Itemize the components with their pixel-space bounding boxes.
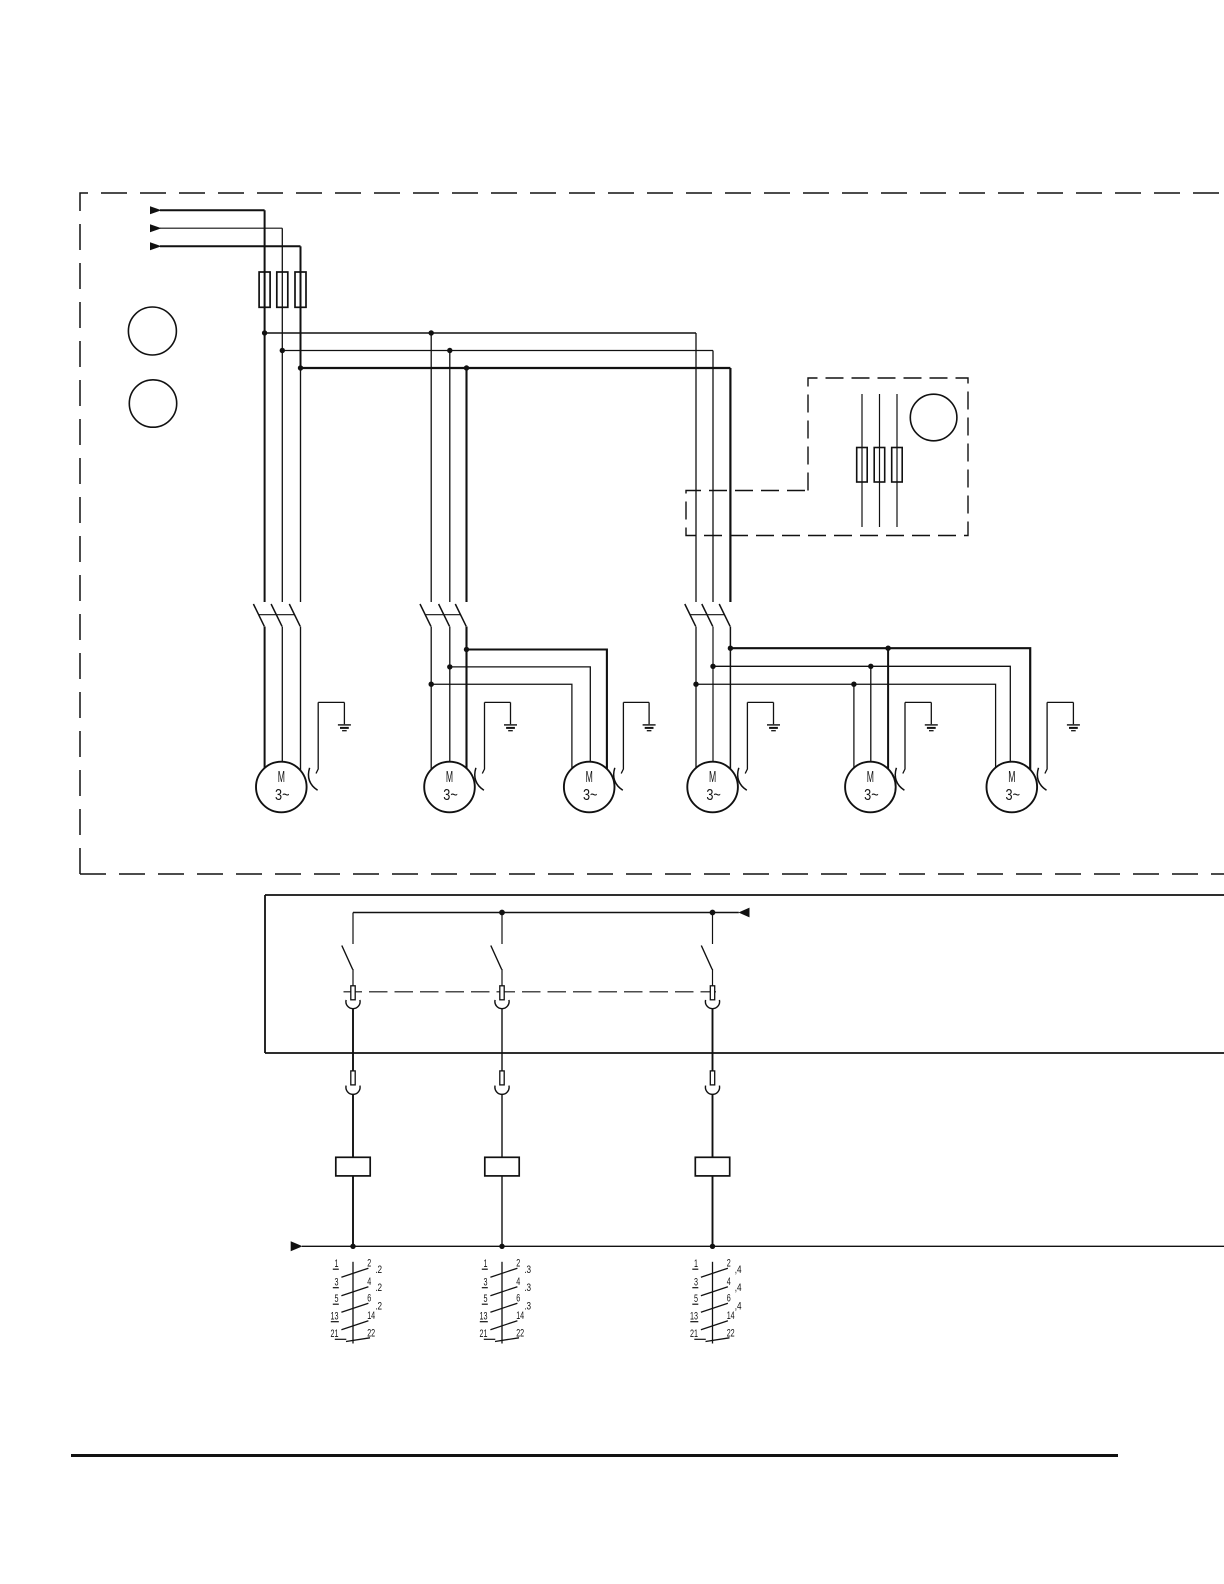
svg-text:M: M xyxy=(867,769,874,786)
motor M6 xyxy=(987,762,1038,813)
svg-text:.3: .3 xyxy=(524,1264,531,1276)
svg-text:4: 4 xyxy=(367,1276,371,1288)
junction L2-K1 xyxy=(280,348,285,353)
svg-text:2: 2 xyxy=(727,1258,731,1270)
ground motor 5 xyxy=(905,702,938,730)
svg-text:6: 6 xyxy=(516,1293,520,1305)
contact table K3 xyxy=(690,1258,742,1344)
wire K2 drop L3 xyxy=(465,368,467,602)
junction bus K3 xyxy=(710,1244,715,1249)
svg-text:3~: 3~ xyxy=(864,787,879,804)
wire L2 drop xyxy=(281,228,283,602)
svg-text:.2: .2 xyxy=(375,1282,382,1294)
svg-text:.3: .3 xyxy=(524,1282,531,1294)
connector X1a xyxy=(346,986,360,1009)
PE wire motor 6 xyxy=(1045,702,1047,773)
junction mid M5 xyxy=(868,664,873,669)
wire branch M3 top xyxy=(467,650,607,776)
fuse F3 xyxy=(295,272,306,307)
wire coil K1 to bus xyxy=(352,1176,354,1246)
ground motor 3 xyxy=(623,702,655,730)
connector X3a xyxy=(705,986,719,1009)
indicator circle P1 xyxy=(128,307,176,355)
motor M5 xyxy=(845,762,896,813)
svg-text:1: 1 xyxy=(335,1258,339,1270)
wire S2 to X2b xyxy=(501,1009,503,1071)
svg-text:14: 14 xyxy=(367,1310,375,1322)
junction control S3 xyxy=(710,910,716,916)
accessory fuse FA2 xyxy=(879,394,881,527)
motor M2 xyxy=(424,762,475,813)
svg-text:M: M xyxy=(278,769,285,786)
feeder arrow L3 xyxy=(150,242,162,250)
ground motor 6 xyxy=(1047,702,1080,730)
bus L2 xyxy=(282,350,713,352)
PE wire motor 1 xyxy=(316,702,318,773)
control box xyxy=(265,895,1224,1053)
contact table K1 xyxy=(331,1258,383,1344)
motor M3 xyxy=(564,762,615,813)
wire coil K3 to bus xyxy=(712,1176,714,1246)
ground motor 1 xyxy=(318,702,351,730)
bus L1 xyxy=(265,332,696,334)
svg-text:4: 4 xyxy=(516,1276,520,1288)
wire branch M3 bottom xyxy=(431,684,572,775)
svg-text:,4: ,4 xyxy=(735,1264,742,1276)
svg-text:5: 5 xyxy=(335,1293,339,1305)
svg-text:1: 1 xyxy=(484,1258,488,1270)
wire S1 to X1b xyxy=(352,1009,354,1071)
junction L1-K1 xyxy=(262,330,267,335)
svg-text:3: 3 xyxy=(484,1277,488,1289)
svg-text:13: 13 xyxy=(331,1311,339,1323)
ground motor 4 xyxy=(747,702,780,730)
junction bottom K3 xyxy=(693,682,698,687)
indicator circle P2 xyxy=(129,380,176,427)
junction L3-K2 xyxy=(464,365,469,370)
svg-text:3~: 3~ xyxy=(583,787,598,804)
svg-text:21: 21 xyxy=(480,1328,488,1340)
connector X3b xyxy=(705,1071,719,1094)
connector X2b xyxy=(495,1071,509,1094)
control bus xyxy=(353,912,739,914)
svg-text:2: 2 xyxy=(516,1258,520,1270)
feeder arrow L2 xyxy=(150,224,162,232)
connector X1b xyxy=(346,1071,360,1094)
wire X1b to coil K1 xyxy=(352,1094,354,1157)
wire L3 drop xyxy=(300,246,302,368)
svg-text:4: 4 xyxy=(727,1276,731,1288)
junction L3-K1 xyxy=(298,365,303,370)
PE wire motor 3 xyxy=(621,702,623,773)
svg-text:21: 21 xyxy=(331,1328,339,1340)
svg-text:3: 3 xyxy=(335,1277,339,1289)
svg-text:3~: 3~ xyxy=(275,787,290,804)
feeder arrow L1 xyxy=(150,206,162,214)
svg-text:.2: .2 xyxy=(375,1264,382,1276)
motor M4 xyxy=(687,762,738,813)
coil K1 xyxy=(336,1157,370,1176)
svg-text:.3: .3 xyxy=(524,1301,531,1313)
wire branch M5/M6 bottom xyxy=(696,684,996,775)
contactor K2 xyxy=(420,604,466,626)
svg-text:.2: .2 xyxy=(375,1301,382,1313)
junction L2-K2 xyxy=(447,348,452,353)
mechanical linkage dashed xyxy=(344,991,717,993)
junction M3 mid xyxy=(447,664,452,669)
svg-text:5: 5 xyxy=(484,1293,488,1305)
wire M1 leads xyxy=(265,627,301,776)
wire K2 drop L2 xyxy=(449,351,451,603)
svg-text:5: 5 xyxy=(694,1293,698,1305)
control bus arrow xyxy=(738,908,749,918)
coil K3 xyxy=(695,1157,729,1176)
ground motor 2 xyxy=(485,702,518,730)
svg-text:2: 2 xyxy=(367,1258,371,1270)
wire K3 drop L2 xyxy=(712,351,714,603)
switch S1 xyxy=(342,913,353,987)
bus L3 xyxy=(301,367,731,369)
switch S3 xyxy=(701,913,712,987)
connector X2a xyxy=(495,986,509,1009)
svg-text:M: M xyxy=(586,769,593,786)
svg-text:6: 6 xyxy=(727,1293,731,1305)
switch S2 xyxy=(491,913,502,987)
svg-text:3~: 3~ xyxy=(706,787,721,804)
svg-text:21: 21 xyxy=(690,1328,698,1340)
svg-text:14: 14 xyxy=(727,1310,735,1322)
PE wire motor 2 xyxy=(482,702,484,773)
wire branch M5/M6 top xyxy=(730,648,1030,775)
contact table K2 xyxy=(480,1258,532,1344)
accessory fuse FA3 xyxy=(896,394,898,527)
svg-text:3~: 3~ xyxy=(1006,787,1021,804)
accessory fuse FA1 xyxy=(861,394,863,527)
svg-text:,4: ,4 xyxy=(735,1301,742,1313)
accessory dashed box xyxy=(686,378,968,536)
footer rule xyxy=(71,1454,1118,1457)
svg-text:M: M xyxy=(446,769,453,786)
wire S3 to X3b xyxy=(712,1009,714,1071)
svg-text:3: 3 xyxy=(694,1277,698,1289)
junction top M5 xyxy=(885,646,890,651)
svg-text:14: 14 xyxy=(516,1310,524,1322)
svg-text:M: M xyxy=(709,769,716,786)
junction mid K3 xyxy=(710,664,715,669)
wire M4 leads xyxy=(696,627,730,776)
PE wire motor 4 xyxy=(745,702,747,773)
svg-text:3~: 3~ xyxy=(443,787,458,804)
junction bottom M5 xyxy=(851,682,856,687)
svg-text:6: 6 xyxy=(367,1293,371,1305)
svg-text:1: 1 xyxy=(694,1258,698,1270)
supply bus bottom xyxy=(302,1245,1224,1247)
wire K3 drop L1 xyxy=(695,333,697,602)
junction control S2 xyxy=(499,910,505,916)
wire X2b to coil K2 xyxy=(501,1094,503,1157)
fuse F1 xyxy=(259,272,270,307)
svg-text:13: 13 xyxy=(690,1311,698,1323)
supply bus arrow xyxy=(291,1241,303,1251)
accessory indicator circle xyxy=(910,394,957,441)
junction M3 bottom xyxy=(429,682,434,687)
fuse F2 xyxy=(277,272,288,307)
coil K2 xyxy=(485,1157,519,1176)
junction M3 top xyxy=(464,647,469,652)
wire K3 drop L3 xyxy=(729,368,731,602)
svg-text:13: 13 xyxy=(480,1311,488,1323)
contactor K3 xyxy=(685,604,730,626)
junction L1-K2 xyxy=(429,330,434,335)
junction bus K2 xyxy=(499,1244,504,1249)
contactor K1 xyxy=(253,604,300,626)
PE wire motor 5 xyxy=(903,702,905,773)
wire K2 drop L1 xyxy=(430,333,432,602)
motor M1 xyxy=(256,762,307,813)
junction bus K1 xyxy=(350,1244,355,1249)
wire branch M5/M6 mid xyxy=(713,666,1010,775)
junction top K3 xyxy=(728,646,733,651)
svg-text:M: M xyxy=(1008,769,1015,786)
wire coil K2 to bus xyxy=(501,1176,503,1246)
wire X3b to coil K3 xyxy=(712,1094,714,1157)
enclosure dashed box xyxy=(80,193,1224,874)
wire L1 drop xyxy=(264,210,266,602)
svg-text:,4: ,4 xyxy=(735,1282,742,1294)
wire branch M3 mid xyxy=(450,667,591,775)
wire M2 leads xyxy=(431,627,466,776)
